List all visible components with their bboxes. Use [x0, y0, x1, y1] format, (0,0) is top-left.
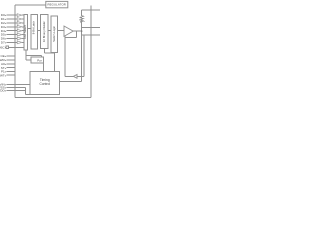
svg-text:REGULATOR: REGULATOR — [47, 3, 66, 7]
svg-text:D7»: D7» — [1, 41, 7, 45]
svg-text:16 Binary Divider: 16 Binary Divider — [42, 21, 46, 42]
svg-text:8-Bit Latch: 8-Bit Latch — [32, 20, 36, 34]
svg-text:Osc Select: Osc Select — [23, 25, 27, 39]
svg-text:OSC: OSC — [0, 45, 5, 49]
svg-text:WT»: WT» — [0, 73, 7, 77]
svg-text:Control: Control — [39, 82, 50, 86]
svg-text:Switch Logic: Switch Logic — [52, 26, 56, 42]
svg-text:Por: Por — [37, 59, 42, 63]
svg-text:VDD»: VDD» — [0, 88, 7, 92]
